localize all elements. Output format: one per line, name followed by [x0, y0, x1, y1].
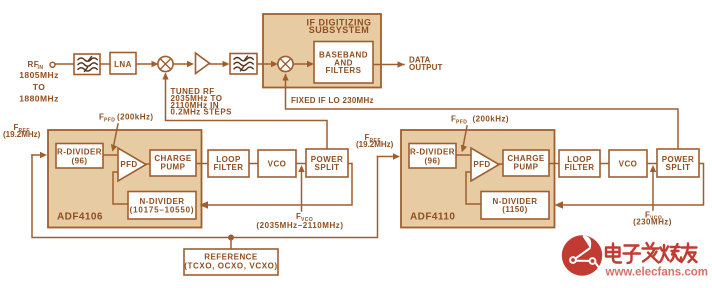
svg-text:FIXED IF LO 230MHz: FIXED IF LO 230MHz [291, 96, 374, 105]
svg-text:PFD: PFD [104, 118, 115, 124]
svg-text:LNA: LNA [114, 60, 132, 69]
svg-text:PFD: PFD [473, 160, 490, 169]
svg-text:FILTER: FILTER [564, 163, 594, 172]
svg-text:(230MHz): (230MHz) [633, 218, 672, 227]
svg-text:1880MHz: 1880MHz [19, 94, 59, 104]
svg-text:(19.2MHz): (19.2MHz) [3, 130, 41, 139]
svg-text:R-DIVIDER: R-DIVIDER [410, 147, 455, 156]
svg-text:SPLIT: SPLIT [315, 163, 340, 172]
svg-text:(96): (96) [424, 156, 440, 165]
svg-text:1805MHz: 1805MHz [19, 70, 59, 80]
svg-text:TO: TO [33, 82, 46, 92]
svg-text:(1150): (1150) [502, 205, 527, 214]
svg-text:SPLIT: SPLIT [666, 163, 691, 172]
svg-text:(200kHz): (200kHz) [117, 113, 154, 122]
svg-text:FILTERS: FILTERS [326, 66, 362, 75]
svg-text:VCO: VCO [619, 159, 638, 168]
svg-text:OUTPUT: OUTPUT [409, 63, 443, 72]
svg-text:(10175–10550): (10175–10550) [130, 205, 195, 214]
svg-text:VCO: VCO [268, 159, 287, 168]
svg-text:FILTER: FILTER [213, 163, 243, 172]
svg-text:(TCXO, OCXO, VCXO): (TCXO, OCXO, VCXO) [184, 261, 277, 270]
svg-text:www.elecfans.com: www.elecfans.com [605, 267, 708, 279]
svg-text:(96): (96) [71, 156, 87, 165]
svg-text:R-DIVIDER: R-DIVIDER [57, 147, 102, 156]
svg-text:PFD: PFD [120, 160, 137, 169]
svg-text:ADF4110: ADF4110 [410, 212, 455, 223]
svg-text:(200kHz): (200kHz) [473, 115, 510, 124]
svg-text:PFD: PFD [456, 120, 467, 126]
svg-text:PUMP: PUMP [161, 163, 186, 172]
svg-text:ADF4106: ADF4106 [57, 212, 103, 223]
svg-text:SUBSYSTEM: SUBSYSTEM [309, 25, 370, 35]
svg-text:PUMP: PUMP [514, 163, 539, 172]
svg-text:0.2MHz STEPS: 0.2MHz STEPS [171, 108, 233, 117]
svg-text:(2035MHz–2110MHz): (2035MHz–2110MHz) [256, 221, 343, 230]
svg-text:(19.2MHz): (19.2MHz) [356, 140, 394, 149]
